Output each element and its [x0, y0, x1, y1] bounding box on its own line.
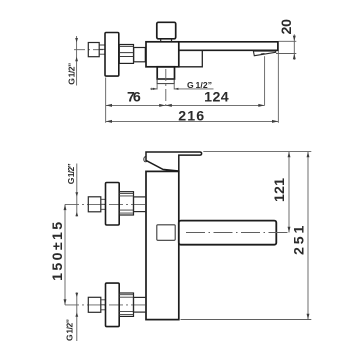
port centerline — [165, 69, 167, 105]
upper union thread lines — [101, 199, 106, 209]
dimension 216 line — [106, 120, 279, 122]
leader line G1/2 spout outlet — [174, 88, 213, 90]
svg-text:G 1/2”: G 1/2” — [66, 163, 76, 184]
arrow 251 bottom — [307, 314, 310, 320]
arrow G1/2 upper union top — [75, 192, 78, 197]
lever handle (front view) — [146, 152, 202, 171]
extension line aerator axis — [264, 56, 266, 105]
arrow G1/2 lower union top — [75, 293, 78, 298]
stub dimension left segment — [152, 88, 158, 90]
dimension G1/2 line (side view union) — [76, 36, 78, 86]
collar (side view) — [134, 48, 146, 62]
arrow 251 top — [307, 152, 310, 158]
arrow 150 top — [64, 204, 67, 210]
arrow 121 bottom — [288, 227, 291, 233]
arrows top view — [75, 36, 296, 123]
centerline lower union — [65, 304, 146, 306]
svg-text:G 1/2”: G 1/2” — [67, 63, 77, 85]
svg-text:20: 20 — [279, 19, 295, 35]
union nipple (side view) — [88, 43, 99, 57]
upper union flange — [106, 183, 120, 226]
upper union nipple — [88, 197, 101, 212]
faucet body (side view) — [146, 42, 179, 67]
aerator under spout tip — [253, 51, 275, 56]
arrow 216 right — [272, 120, 278, 123]
dimension 20 line — [293, 34, 295, 60]
cover nut (side view) — [119, 45, 133, 64]
arrow G1/2 bottom (side union) — [75, 57, 78, 62]
dimension G1/2 line upper union — [76, 164, 78, 217]
arrow 124 left — [166, 104, 172, 107]
faucet body (front view) — [146, 171, 179, 319]
arrow 150 bottom — [64, 299, 67, 305]
arrow 216 left — [106, 120, 112, 123]
centerline union (side view) — [74, 49, 103, 51]
extension line spout tip — [277, 51, 279, 123]
spout (side view) — [179, 42, 278, 51]
stub extension lines — [157, 84, 174, 90]
handle knob (side view) — [157, 22, 176, 39]
dimension G1/2 line lower union — [76, 292, 78, 341]
dimension 20 extension lines — [276, 41, 296, 53]
arrow 124 right — [258, 104, 264, 107]
arrow stub right — [174, 88, 178, 90]
upper union collar — [134, 197, 147, 212]
shower outlet port (side view) — [157, 67, 174, 79]
svg-text:76: 76 — [127, 90, 141, 106]
arrow 76 right — [159, 104, 165, 107]
lower union nut — [119, 293, 133, 316]
arrow G1/2 upper union bottom — [75, 212, 78, 217]
wall flange (side view) — [105, 33, 119, 77]
lower union flange — [106, 283, 120, 327]
arrow G1/2 top (side union) — [75, 38, 78, 43]
spout centerline — [186, 232, 291, 234]
svg-text:G 1/2”: G 1/2” — [187, 80, 212, 90]
thread lines (side view) — [99, 45, 105, 54]
lower union collar — [134, 297, 147, 312]
arrows front view — [64, 152, 310, 320]
svg-text:251: 251 — [292, 225, 308, 255]
svg-text:G 1/2”: G 1/2” — [65, 319, 75, 341]
dimension 121 line — [288, 152, 290, 233]
dimension 251 line — [307, 152, 309, 320]
svg-text:124: 124 — [204, 90, 229, 106]
arrow 20 bottom — [293, 54, 296, 60]
top extension line (front view) — [203, 151, 311, 153]
spout base block (side view) — [179, 50, 203, 67]
svg-text:216: 216 — [178, 108, 204, 124]
handle indicator dot — [144, 157, 148, 162]
upper union nut — [119, 192, 133, 215]
svg-text:121: 121 — [272, 178, 288, 202]
arrow 121 top — [288, 152, 291, 158]
knob stem — [161, 39, 172, 42]
arrow G1/2 lower union bottom — [75, 312, 78, 317]
centerline upper union — [65, 203, 146, 205]
extension line wall plane — [105, 78, 107, 123]
spout (front view) — [179, 221, 276, 245]
bottom extension line (front view) — [181, 319, 312, 321]
lower union thread lines — [101, 300, 106, 310]
arrow 20 top — [293, 36, 296, 42]
arrow 76 left — [106, 104, 112, 107]
dimension 150±15 line — [64, 204, 66, 305]
shower outlet thread stub — [157, 79, 174, 84]
dimension 76 124 line — [106, 104, 265, 106]
decor square on body — [157, 225, 175, 241]
arrow stub left — [153, 88, 157, 90]
lower union nipple — [88, 297, 101, 312]
